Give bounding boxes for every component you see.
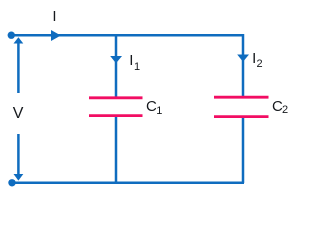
voltage source V down arrow	[14, 134, 24, 181]
wire branch C1 lower	[115, 116, 118, 183]
current arrow I on top wire	[51, 30, 61, 41]
current arrow I2	[237, 55, 249, 62]
wire top horizontal	[11, 34, 244, 37]
svg-text:2: 2	[282, 104, 288, 116]
wire right vertical lower (C2 branch)	[242, 117, 245, 183]
wire bottom horizontal	[11, 182, 244, 185]
wire branch C1 upper	[115, 34, 118, 97]
svg-text:I: I	[52, 8, 56, 25]
voltage source V up arrow	[14, 37, 24, 93]
current arrow I1	[110, 56, 122, 63]
svg-text:I: I	[129, 52, 133, 69]
wire right vertical upper (C2 branch)	[242, 34, 245, 97]
node top-left	[8, 32, 15, 39]
svg-text:1: 1	[134, 61, 140, 73]
node bottom-left	[8, 179, 15, 186]
svg-text:V: V	[13, 105, 24, 122]
capacitor C1	[89, 98, 143, 116]
svg-text:1: 1	[156, 105, 162, 117]
capacitor C2	[214, 97, 269, 116]
svg-text:2: 2	[257, 58, 263, 70]
